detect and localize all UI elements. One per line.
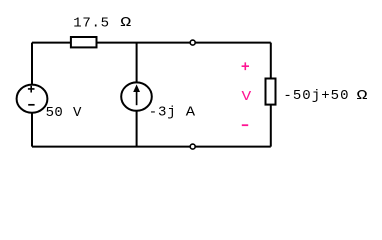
svg-text:V: V — [73, 105, 82, 121]
svg-text:Ω: Ω — [357, 88, 368, 104]
svg-text:50: 50 — [46, 105, 64, 121]
resistor R2 body — [266, 79, 276, 105]
svg-text:-3j: -3j — [149, 104, 177, 120]
voltage source V1 — [17, 85, 48, 113]
svg-text:A: A — [186, 104, 196, 120]
wire right — [270, 43, 272, 147]
svg-text:17.5: 17.5 — [73, 16, 109, 32]
resistor R1 body — [71, 37, 97, 47]
wire current-source branch — [136, 43, 138, 147]
current source I1 — [121, 82, 152, 110]
terminal node top — [190, 40, 195, 45]
svg-text:-50j+50: -50j+50 — [283, 88, 349, 104]
wire top — [32, 42, 271, 44]
voltage source plus sign — [28, 86, 35, 93]
port voltage minus label — [242, 124, 248, 126]
port voltage plus label — [242, 62, 249, 70]
svg-text:Ω: Ω — [120, 15, 131, 31]
current source arrow shaft — [136, 91, 138, 105]
svg-text:V: V — [242, 89, 252, 105]
current source arrow head — [133, 84, 140, 92]
wire left — [31, 43, 33, 147]
terminal node bottom — [190, 144, 195, 149]
voltage source minus sign — [28, 104, 34, 106]
wire bottom — [32, 146, 271, 148]
